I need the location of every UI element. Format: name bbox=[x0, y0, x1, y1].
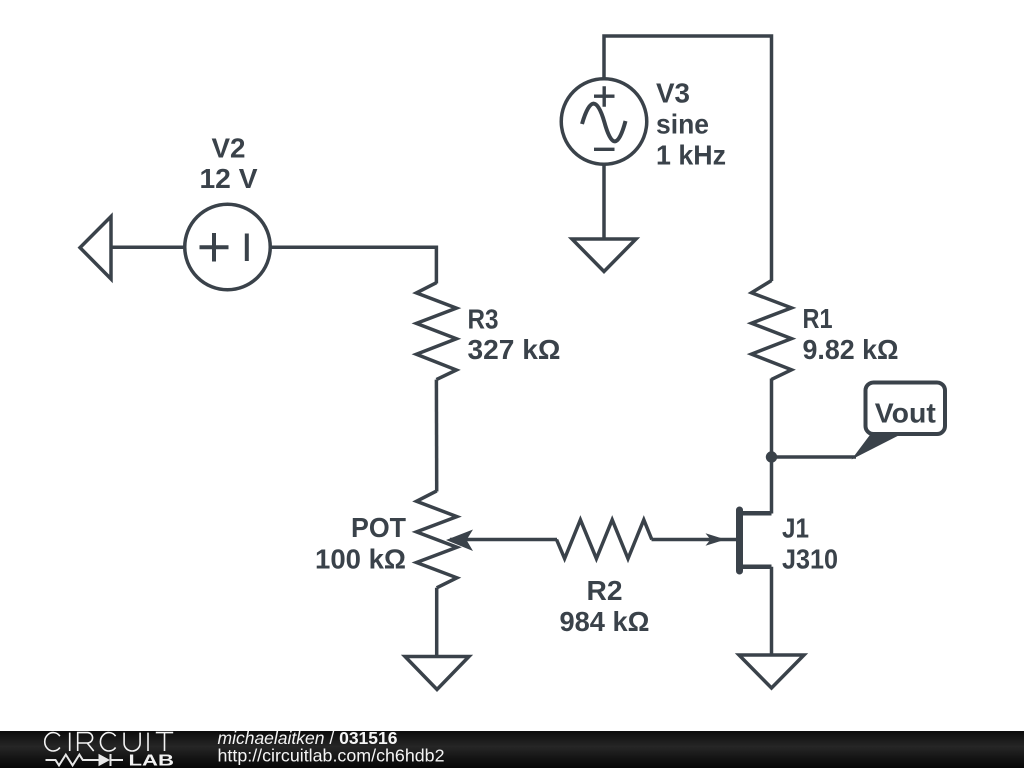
svg-text:V3: V3 bbox=[656, 77, 690, 108]
resistor R3 zigzag bbox=[416, 283, 456, 380]
svg-text:1 kHz: 1 kHz bbox=[656, 139, 726, 170]
Vout flag box bbox=[866, 383, 946, 435]
wire V3 bottom to ground bbox=[602, 163, 606, 239]
node junction dot bbox=[766, 451, 777, 462]
resistor R1 zigzag bbox=[752, 281, 792, 380]
wire V2 left terminal bbox=[110, 246, 186, 250]
logo diode triangle bbox=[99, 754, 111, 766]
svg-text:327 kΩ: 327 kΩ bbox=[468, 334, 561, 365]
Vout flag tail bbox=[852, 434, 903, 460]
wire node to Vout tail bbox=[772, 455, 857, 459]
svg-text:984 kΩ: 984 kΩ bbox=[560, 606, 650, 637]
svg-text:POT: POT bbox=[351, 512, 406, 543]
svg-text:R3: R3 bbox=[468, 303, 499, 334]
wire JFET source to ground bbox=[770, 567, 774, 656]
JFET J1 drain stub bbox=[742, 511, 772, 516]
CircuitLab logo wordmark CIRCUIT (hand-drawn thin letters) bbox=[45, 733, 173, 751]
svg-text:R2: R2 bbox=[587, 575, 623, 606]
svg-text:V2: V2 bbox=[212, 133, 246, 164]
flag terminal left of V2 bbox=[80, 217, 111, 280]
wire V3 top to R1 top bbox=[604, 36, 772, 281]
svg-text:R1: R1 bbox=[803, 303, 833, 334]
wire R2 right to JFET gate bbox=[652, 538, 737, 542]
svg-text:http://circuitlab.com/ch6hdb2: http://circuitlab.com/ch6hdb2 bbox=[218, 746, 445, 766]
JFET gate arrowhead bbox=[706, 533, 726, 545]
svg-text:J310: J310 bbox=[782, 544, 838, 575]
POT wiper arrowhead bbox=[446, 530, 473, 552]
ground under JFET bbox=[739, 655, 804, 688]
svg-text:9.82 kΩ: 9.82 kΩ bbox=[803, 334, 899, 365]
wire POT bottom to ground bbox=[435, 588, 439, 656]
resistor R2 zigzag bbox=[557, 520, 652, 559]
V2 plus sign bbox=[200, 233, 229, 262]
svg-text:sine: sine bbox=[656, 108, 709, 139]
svg-text:Vout: Vout bbox=[875, 398, 936, 429]
potentiometer POT zigzag bbox=[417, 491, 457, 588]
logo resistor zigzag and diode bbox=[46, 754, 124, 766]
V2 bar bbox=[245, 234, 249, 262]
V3 plus sign bbox=[594, 86, 615, 107]
svg-text:LAB: LAB bbox=[129, 753, 175, 768]
V3 minus sign bbox=[594, 148, 615, 151]
JFET J1 gate bar bbox=[736, 510, 743, 571]
V3 sine wave bbox=[582, 104, 626, 142]
voltage source V2 circle bbox=[185, 204, 271, 290]
svg-text:12 V: 12 V bbox=[200, 163, 258, 194]
voltage source V3 circle bbox=[561, 79, 647, 165]
wire POT wiper to R2 left bbox=[450, 538, 557, 542]
svg-text:100 kΩ: 100 kΩ bbox=[315, 544, 406, 575]
JFET J1 source stub bbox=[742, 564, 772, 569]
wire V2 right to R3 top bbox=[269, 247, 436, 283]
wire R1 bottom to JFET drain bbox=[770, 379, 774, 514]
svg-text:J1: J1 bbox=[782, 513, 809, 544]
ground under V3 bbox=[572, 239, 636, 272]
wire R3 bottom to POT top bbox=[435, 380, 439, 492]
ground under POT bbox=[405, 657, 469, 690]
